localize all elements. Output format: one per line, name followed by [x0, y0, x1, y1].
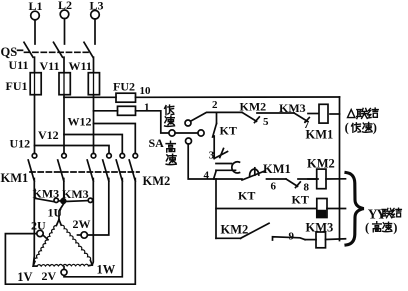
svg-text:6: 6 — [271, 181, 277, 193]
wire 1 (from W phase through FU2 to SA) — [94, 102, 169, 134]
wire right rail — [339, 97, 341, 241]
svg-text:2W: 2W — [73, 217, 91, 231]
label 1V — [17, 270, 32, 284]
coil KM1 — [306, 104, 340, 141]
svg-text:KM2: KM2 — [221, 223, 249, 237]
contact KM3 NC (7) — [279, 101, 318, 131]
wire 10 (from V phase through FU2 to right rail) — [64, 85, 340, 97]
svg-text:V11: V11 — [40, 59, 60, 73]
terminal 2U — [31, 219, 48, 240]
svg-text:(: ( — [365, 221, 369, 235]
contact KT NC (8) — [286, 179, 318, 207]
label YY connection (high speed) — [365, 207, 401, 235]
svg-text:): ) — [393, 221, 397, 235]
wire KM2 pole5 to 2V — [64, 179, 122, 277]
svg-text:W12: W12 — [68, 114, 92, 128]
contact KM2 NO (9) — [216, 223, 305, 243]
wire phase V12 vertical — [63, 95, 65, 154]
svg-text:SA: SA — [149, 136, 165, 150]
terminal L1 — [29, 0, 43, 20]
svg-text:U11: U11 — [9, 58, 29, 72]
junction node (1U) — [61, 199, 66, 204]
svg-text:3: 3 — [209, 150, 215, 162]
contact KM3 (right) — [62, 187, 93, 203]
svg-text:KM1: KM1 — [306, 128, 334, 142]
svg-text:(: ( — [345, 121, 349, 135]
svg-text:KM1: KM1 — [1, 171, 29, 185]
selector switch SA — [149, 120, 205, 150]
brace for YY group — [346, 173, 364, 246]
svg-text:1U: 1U — [48, 206, 63, 220]
wire L1 drop — [34, 20, 36, 44]
contact KM2 NC (5) — [240, 100, 295, 129]
contact KT delay element (node 3 to 4) — [214, 149, 240, 180]
svg-text:KT: KT — [292, 193, 309, 207]
svg-text:1W: 1W — [97, 263, 116, 277]
wire rail W12 — [68, 114, 136, 153]
linkage dashed line KM1-KM2 — [30, 171, 139, 173]
svg-text:10: 10 — [140, 85, 152, 97]
wire rail U12 — [10, 137, 110, 154]
contact KM1 NO (6) — [238, 162, 291, 203]
wire rail V12 — [38, 128, 122, 153]
wire L3 drop — [94, 19, 96, 44]
svg-text:KT: KT — [220, 124, 237, 138]
wire L2 drop — [64, 19, 66, 44]
terminal 2W — [73, 217, 91, 238]
svg-text:1: 1 — [144, 102, 150, 114]
coil KT (delay relay) — [216, 199, 346, 218]
svg-text:9: 9 — [289, 231, 295, 243]
svg-text:KM1: KM1 — [263, 162, 291, 176]
svg-text:FU2: FU2 — [113, 80, 135, 94]
svg-text:W11: W11 — [69, 59, 92, 73]
wire node-4 vertical down — [215, 179, 217, 238]
wire V11 — [40, 57, 65, 73]
switch QS — [1, 42, 94, 59]
terminal L2 — [58, 0, 72, 19]
wire KM1 pole2 to junction — [59, 179, 64, 220]
wire phase W12 vertical — [93, 95, 95, 154]
wire KM1 pole3 to 1W — [92, 179, 93, 266]
wire KM2 pole6 to 2U — [5, 179, 135, 285]
label 高速 (high speed) — [166, 141, 176, 165]
svg-text:KM3: KM3 — [279, 101, 306, 115]
wire phase U12 vertical — [34, 95, 36, 154]
wire SA high-speed drop to node 4 — [188, 144, 242, 182]
svg-text:): ) — [373, 121, 377, 135]
svg-text:V12: V12 — [38, 128, 59, 142]
svg-text:KM2: KM2 — [240, 100, 267, 114]
svg-text:2V: 2V — [42, 269, 57, 283]
terminal L3 — [90, 0, 104, 19]
svg-text:U12: U12 — [10, 137, 31, 151]
wire SA low-speed to node 2 — [191, 99, 243, 121]
coil KM3 — [305, 221, 346, 248]
svg-text:FU1: FU1 — [6, 79, 28, 93]
svg-text:KT: KT — [238, 189, 255, 203]
label 1W — [97, 263, 116, 277]
svg-text:1V: 1V — [17, 270, 32, 284]
motor winding (delta) — [33, 206, 92, 267]
contactor KM1 main contacts — [1, 153, 96, 185]
svg-text:QS: QS — [1, 45, 18, 59]
label delta connection (low speed) — [345, 108, 379, 134]
fuse FU2 — [113, 80, 136, 116]
fuse FU1 — [6, 73, 100, 95]
svg-text:8: 8 — [304, 182, 310, 194]
terminal 2V — [42, 267, 68, 283]
contact KT (upper, between 2 and 3) — [209, 112, 237, 161]
svg-text:2: 2 — [212, 99, 218, 111]
contact KM3 (left) — [33, 187, 62, 203]
svg-text:4: 4 — [204, 170, 210, 182]
svg-text:5: 5 — [263, 116, 269, 128]
contactor KM2 main contacts — [103, 153, 171, 188]
wire KM2 pole4 to 2W — [88, 179, 109, 236]
svg-text:KM2: KM2 — [143, 174, 171, 188]
wire W11 — [69, 57, 94, 73]
coil KM2 — [307, 157, 346, 189]
wire KM1 pole1 to 1V — [33, 179, 34, 267]
label 低速 (low speed) — [165, 105, 175, 126]
svg-text:KM3: KM3 — [62, 187, 89, 201]
wire U11 — [9, 57, 35, 72]
